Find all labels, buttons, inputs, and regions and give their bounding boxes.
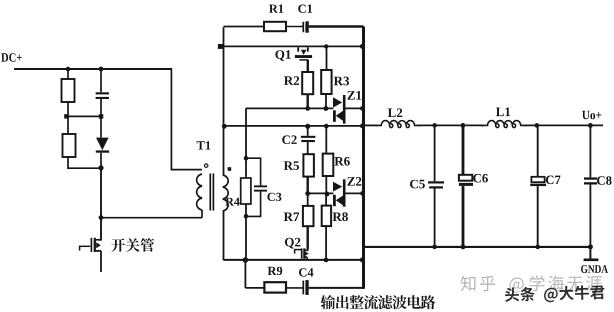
node snubber mid junctions bbox=[64, 114, 68, 118]
resistor snubber R-a bbox=[62, 79, 75, 102]
label C5 bbox=[410, 180, 425, 189]
label R1 bbox=[269, 5, 283, 13]
wire output top rail mid bbox=[418, 124, 485, 126]
transistor switch channel bar bbox=[94, 238, 96, 252]
wire DC+ to T1 primary bbox=[171, 68, 202, 170]
node junction Z2 / bus bbox=[360, 191, 365, 196]
node junction drain to primary return bbox=[99, 215, 104, 220]
ground GNDA symbol bbox=[589, 247, 591, 260]
wire middle bottom rail bbox=[224, 259, 364, 261]
wire snubber resistor top lead bbox=[67, 69, 69, 79]
transformer T1 label bbox=[197, 141, 211, 149]
resistor R9 bbox=[264, 282, 286, 292]
label R8 bbox=[333, 212, 348, 221]
resistor R7 bbox=[303, 206, 314, 226]
wire main vertical bus bbox=[362, 27, 365, 289]
diode Z2 lower bbox=[333, 195, 336, 206]
node junction line B / bus bbox=[360, 124, 365, 129]
wire output line B bbox=[224, 125, 364, 127]
wire output top rail left bbox=[365, 124, 378, 126]
node junction Q1 line / R3 bbox=[324, 44, 328, 48]
wire R1 to C1 bbox=[286, 26, 303, 28]
capacitor C6 top lead bbox=[462, 125, 465, 174]
capacitor C7 top lead bbox=[537, 125, 539, 176]
label C8 bbox=[597, 176, 612, 185]
capacitor C3 bbox=[254, 185, 267, 187]
wire DC+ rail bbox=[14, 68, 171, 70]
label R2 bbox=[284, 76, 299, 85]
capacitor C8 bottom lead bbox=[589, 185, 591, 248]
transformer T1 primary winding bbox=[197, 174, 202, 210]
label caption 输出整流滤波电路 bbox=[321, 295, 436, 309]
resistor snubber R-b bbox=[63, 134, 76, 157]
node junction R5-R7 / mid line bbox=[305, 191, 310, 196]
wire Q1 drain line bbox=[218, 45, 364, 47]
wire R3 bottom lead bbox=[325, 94, 327, 108]
wire R6 bottom lead bbox=[325, 176, 327, 194]
diode Z1 lower bbox=[333, 110, 336, 122]
resistor R8 bbox=[322, 206, 331, 227]
node junction C7 / top rail bbox=[535, 123, 540, 128]
wire R9 to C4 bbox=[286, 287, 303, 289]
label C7 bbox=[546, 176, 561, 185]
diode Z2 upper bbox=[333, 182, 342, 192]
wire R5 bottom lead bbox=[307, 177, 309, 194]
wire R6 top lead bbox=[325, 126, 327, 154]
wire R9 lead bbox=[245, 287, 264, 289]
wire primary return bbox=[101, 210, 202, 218]
wire R9 branch vertical bbox=[244, 260, 246, 288]
capacitor C7 bottom lead bbox=[537, 186, 539, 247]
diode Z1 upper bbox=[333, 97, 342, 107]
label R5 bbox=[284, 161, 299, 170]
transistor switch gate bar bbox=[90, 238, 92, 252]
node junction R6-R8 / mid line bbox=[325, 192, 330, 197]
capacitor C5 bbox=[428, 181, 444, 183]
label L1 bbox=[496, 108, 510, 117]
transistor Q2 source hook bbox=[304, 257, 307, 260]
label R7 bbox=[284, 213, 299, 222]
wire rectifier line A bbox=[246, 107, 333, 109]
transistor Q2 drain hook bbox=[304, 249, 307, 250]
wire diode bottom lead bbox=[100, 153, 102, 168]
capacitor C8 top lead bbox=[589, 125, 591, 177]
wire C2 top lead bbox=[307, 126, 309, 136]
transistor Q2 gate bar bbox=[301, 248, 303, 258]
wire output top rail right bbox=[524, 124, 604, 126]
label R9 bbox=[268, 267, 283, 275]
wire bus to output bottom rail bbox=[364, 246, 367, 248]
transistor switch drain hook bbox=[96, 239, 101, 241]
wire Z1 to bus bbox=[346, 107, 364, 109]
node junction secondary-top / Q1 line bbox=[218, 44, 223, 49]
transformer T1 secondary polarity dot bbox=[228, 167, 232, 171]
capacitor C7 plates bbox=[531, 177, 544, 182]
label R4 bbox=[225, 198, 239, 206]
wire top loop left bbox=[224, 26, 265, 28]
wire C1 to bus bbox=[309, 25, 364, 28]
wire R3 top lead bbox=[326, 46, 328, 70]
watermark 头条 @大牛君 bbox=[505, 285, 605, 304]
capacitor C5 top lead bbox=[434, 125, 436, 181]
wire secondary bottom vertical bbox=[223, 211, 225, 260]
transistor Q1 body bbox=[297, 47, 299, 51]
node junction R6 / line B bbox=[324, 124, 329, 129]
label Z2 bbox=[347, 177, 361, 186]
inductor L2 bbox=[375, 121, 420, 128]
node junction C2 / line B bbox=[305, 124, 310, 129]
transistor Q2 label bbox=[285, 238, 301, 249]
node Uo+ label bbox=[582, 111, 601, 120]
node junction Z1 / bus bbox=[360, 106, 365, 111]
wire output bottom rail bbox=[365, 246, 591, 248]
transistor switch source hook bbox=[96, 251, 101, 272]
label C1 bbox=[298, 5, 312, 13]
capacitor C8 bbox=[584, 177, 597, 179]
label C2 bbox=[282, 135, 297, 144]
capacitor C1 bbox=[302, 22, 304, 32]
wire switch drain vertical bbox=[100, 168, 102, 241]
node DC+ label bbox=[1, 53, 22, 61]
node R4 top junction bbox=[244, 156, 249, 161]
node junction GNDA / bottom rail bbox=[588, 244, 593, 249]
node junction on DC+ at snubber resistor bbox=[66, 67, 71, 72]
label C6 bbox=[473, 174, 488, 183]
node clamp bottom junction bbox=[98, 165, 103, 170]
node R4 bottom junction bbox=[244, 214, 249, 219]
resistor R2 bbox=[302, 72, 313, 94]
resistor R4 bbox=[241, 178, 251, 204]
transformer T1 primary polarity dot bbox=[205, 164, 208, 167]
label GNDA bbox=[581, 265, 608, 273]
node junction R3 / line A bbox=[324, 106, 329, 111]
wire snubber bottom bbox=[68, 157, 101, 168]
node bottom rail junction at R9 branch bbox=[243, 257, 249, 263]
resistor R6 bbox=[323, 154, 334, 176]
transistor Q2 arrow bbox=[305, 252, 309, 256]
node junction C7 / bottom rail bbox=[535, 245, 540, 250]
transistor Q1 label bbox=[275, 50, 290, 61]
wire clamp cap top lead bbox=[100, 69, 102, 92]
wire R7 top lead bbox=[307, 193, 309, 206]
capacitor C4 bbox=[302, 281, 304, 295]
inductor L1 bbox=[482, 121, 527, 128]
capacitor C2 bbox=[301, 136, 316, 138]
resistor R1 bbox=[264, 22, 286, 31]
wire Q1 source to R2 bbox=[307, 60, 309, 72]
wire R2 bottom lead bbox=[307, 94, 309, 108]
wire R7 bottom lead to Q2 bbox=[307, 226, 309, 249]
watermark 知乎 @学海无涯 bbox=[461, 275, 602, 292]
node junction bottom rail / bus bbox=[360, 257, 365, 262]
resistor R3 bbox=[321, 70, 331, 94]
resistor R5 bbox=[303, 154, 314, 176]
node junction C5 / top rail bbox=[432, 123, 437, 128]
label C4 bbox=[299, 268, 313, 276]
transistor switch (开关管) gate lead bbox=[79, 246, 81, 250]
capacitor C3 branch wires bbox=[246, 158, 261, 216]
node junction C6 / bottom rail bbox=[461, 245, 466, 250]
node junction C5 / bottom rail bbox=[432, 245, 437, 250]
capacitor clamp C-a bbox=[96, 92, 109, 94]
node junction on DC+ at clamp cap bbox=[99, 67, 104, 72]
wire Z2 to bus bbox=[346, 192, 364, 194]
label L2 bbox=[388, 108, 402, 117]
label C3 bbox=[267, 193, 281, 201]
node junction C8 / top rail bbox=[588, 123, 593, 128]
node junction R2 / line A bbox=[305, 106, 310, 111]
wire mid line bbox=[308, 192, 334, 194]
capacitor C6 bottom lead bbox=[462, 186, 465, 247]
capacitor C5 bottom lead bbox=[434, 189, 436, 248]
transistor switch arrow bbox=[96, 242, 101, 248]
node junction R8 / bottom rail bbox=[324, 258, 329, 263]
transistor Q2 gate lead bbox=[294, 250, 296, 254]
node junction secondary-top / line B bbox=[222, 124, 227, 129]
wire R4 branch vertical bbox=[245, 108, 247, 260]
label 开关管 bbox=[111, 238, 154, 252]
label R3 bbox=[334, 77, 349, 86]
diode clamp D-a bbox=[96, 138, 109, 151]
wire C2 to R5 bbox=[307, 142, 309, 154]
transformer T1 secondary winding bbox=[223, 175, 228, 211]
transistor Q2 channel bar bbox=[303, 248, 305, 258]
wire secondary top vertical bbox=[223, 27, 225, 175]
wire R8 top lead bbox=[325, 194, 327, 206]
label R6 bbox=[335, 157, 350, 166]
wire clamp cap to diode bbox=[100, 99, 102, 138]
wire snubber mid bbox=[66, 102, 101, 134]
node junction Q1 line / bus bbox=[360, 44, 365, 49]
capacitor C6 plates bbox=[459, 175, 472, 181]
label Z1 bbox=[347, 91, 361, 100]
wire R8 bottom lead bbox=[325, 226, 327, 260]
node junction C6 / top rail bbox=[461, 123, 466, 128]
transformer T1 core bbox=[210, 174, 213, 211]
wire C4 to bus bbox=[309, 287, 364, 289]
